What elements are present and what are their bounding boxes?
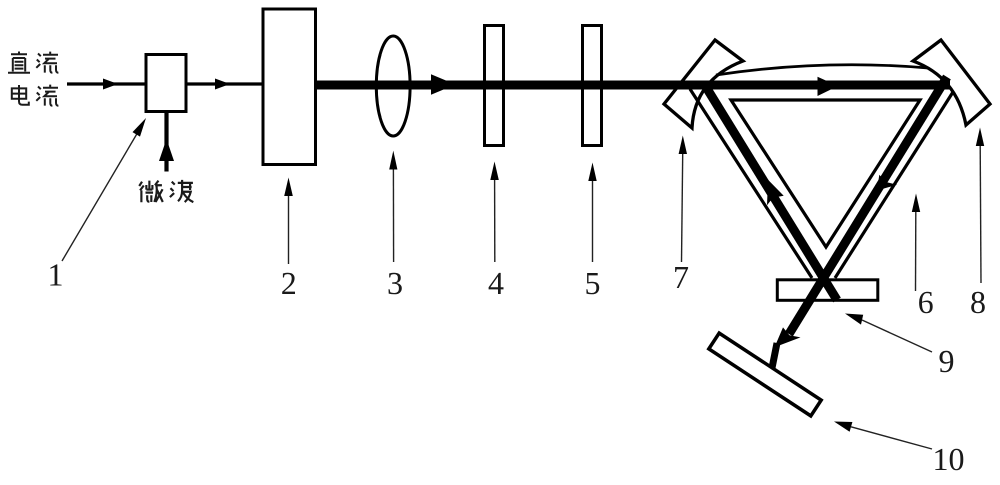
label arrow 2 bbox=[288, 195, 290, 264]
microwave input line bbox=[164, 112, 168, 172]
label arrow 6 bbox=[915, 212, 917, 291]
main horizontal beam bbox=[316, 81, 950, 90]
char 波 bbox=[170, 180, 193, 202]
beam arrowhead after lens bbox=[431, 74, 456, 95]
label 9 bbox=[940, 351, 954, 373]
label 7 bbox=[675, 267, 688, 288]
label arrow 9 bbox=[862, 320, 932, 352]
text 微波 (microwave) bbox=[139, 180, 193, 202]
inner triangle of ring cavity bbox=[731, 100, 920, 247]
arrow from DC text to box 1 bbox=[67, 82, 146, 85]
output coupler plate 9 bbox=[777, 280, 878, 301]
label 4 bbox=[489, 273, 504, 294]
right leg beam arrowhead (pointing down-left) bbox=[877, 175, 897, 191]
microwave arrowhead bbox=[159, 139, 174, 161]
char 流 bbox=[36, 52, 58, 73]
label arrow 7 bbox=[682, 154, 683, 262]
lens 3 bbox=[376, 36, 410, 136]
label 8 bbox=[971, 292, 985, 314]
cavity envelope curve (top) bbox=[716, 65, 928, 75]
left leg beam arrowhead (pointing up-left) bbox=[767, 180, 784, 206]
cavity band outer edge right bbox=[835, 92, 953, 278]
output beam stem to mirror 10 bbox=[772, 343, 777, 368]
char 电 bbox=[12, 85, 29, 105]
label arrow 4 bbox=[494, 180, 496, 262]
cavity left leg beam bbox=[706, 87, 837, 300]
label 2 bbox=[282, 273, 295, 294]
char 微 bbox=[139, 181, 163, 203]
mirror 10 (tilted output mirror) bbox=[709, 333, 821, 416]
label 3 bbox=[389, 273, 402, 295]
etalon plate 5 bbox=[583, 26, 602, 146]
cavity right leg / output beam bbox=[789, 77, 947, 334]
mirror M8 (concave, tilted) bbox=[913, 40, 990, 125]
box 1 (modulator) bbox=[146, 55, 186, 112]
label arrow 3 bbox=[392, 169, 394, 262]
output beam arrowhead (big, pointing down-left) bbox=[775, 327, 801, 347]
label 10 bbox=[935, 449, 963, 471]
box 2 (gain block) bbox=[263, 9, 316, 165]
char 流 bbox=[36, 85, 58, 106]
beam arrowhead inside cavity top bbox=[818, 77, 839, 96]
arrow from box 1 to box 2 bbox=[188, 82, 264, 85]
etalon plate 4 bbox=[485, 26, 504, 146]
mirror M7 (concave, tilted) bbox=[664, 40, 743, 128]
label 6 bbox=[919, 292, 933, 314]
label arrow 5 bbox=[592, 181, 594, 262]
cavity band outer edge left bbox=[690, 89, 812, 278]
label 5 bbox=[586, 273, 599, 294]
text 直流电流 (DC current), drawn as strokes bbox=[8, 52, 58, 106]
char 直 bbox=[8, 52, 30, 73]
label arrow 1 bbox=[62, 132, 138, 261]
label 1 bbox=[50, 264, 61, 285]
label arrow 8 bbox=[979, 146, 982, 283]
label arrow 10 bbox=[851, 427, 932, 449]
